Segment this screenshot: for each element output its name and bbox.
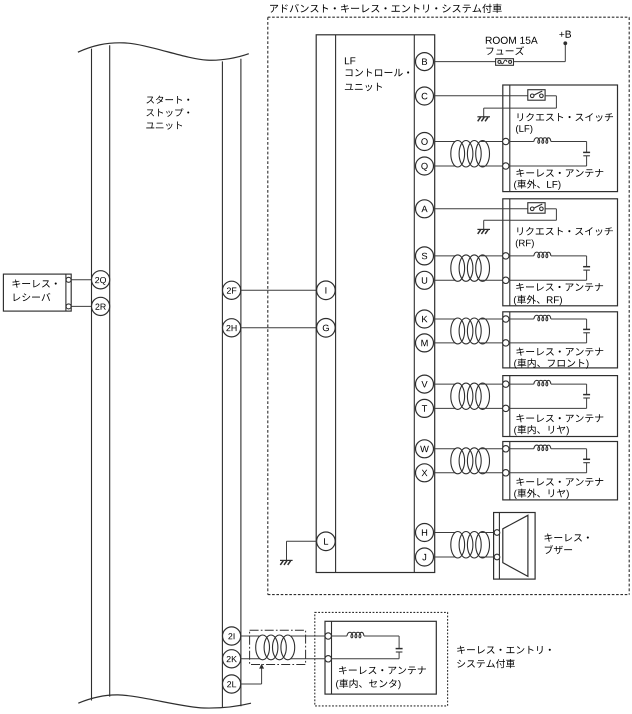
connector 2L	[223, 675, 241, 693]
buzzer pin upper	[494, 530, 500, 536]
connector W	[416, 440, 434, 458]
antenna connector pin upper	[503, 138, 509, 144]
wire	[509, 383, 534, 385]
wire A to request switch RF	[433, 208, 528, 210]
dotted border: keyless entry system	[315, 612, 448, 706]
antenna connector pin lower	[503, 470, 509, 476]
antenna connector pin lower	[503, 340, 509, 346]
connector T	[416, 399, 434, 417]
connector B	[416, 53, 434, 71]
keyless antenna (interior front) box	[503, 312, 618, 368]
request switch LF	[528, 90, 545, 101]
wire	[586, 463, 588, 473]
wire switch RF to ground	[545, 208, 556, 210]
wire	[509, 448, 534, 450]
label keyless entry system	[457, 646, 551, 654]
antenna coil	[534, 315, 551, 321]
connector A	[416, 200, 434, 218]
twisted pair W-X	[433, 448, 455, 450]
twisted pair S-U	[433, 255, 455, 257]
antenna connector pin lower	[325, 656, 331, 662]
label keyless antenna LF	[516, 169, 603, 177]
label keyless antenna front	[516, 348, 603, 356]
label keyless receiver	[12, 280, 56, 288]
wire L to ground	[287, 540, 317, 542]
antenna connector pin upper	[325, 633, 331, 639]
connector Q	[416, 157, 434, 175]
wire 2L to shield	[241, 683, 262, 685]
receiver pin upper	[66, 277, 71, 282]
wire	[586, 270, 588, 280]
ground	[477, 228, 490, 230]
wire 2F to I	[241, 289, 316, 291]
connector I	[317, 281, 336, 300]
shield arrow	[259, 664, 264, 669]
wire	[586, 156, 588, 166]
wire	[509, 255, 534, 257]
connector 2K	[223, 650, 241, 668]
antenna coil	[534, 445, 551, 451]
wire	[551, 383, 587, 385]
start-stop unit body	[78, 43, 249, 60]
antenna coil	[347, 632, 364, 638]
keyless receiver box	[3, 274, 71, 311]
twisted pair V-T	[433, 383, 455, 385]
keyless antenna (center) box	[325, 621, 436, 694]
label ROOM 15A fuse	[486, 37, 538, 44]
wire receiver to 2R	[71, 305, 92, 307]
antenna connector pin upper	[503, 381, 509, 387]
label keyless antenna interior rear	[516, 414, 603, 422]
connector 2Q	[92, 271, 110, 289]
label +B	[559, 31, 571, 38]
connector 2R	[92, 297, 110, 315]
connector S	[416, 247, 434, 265]
wire	[332, 635, 347, 637]
antenna coil	[534, 138, 551, 144]
request switch (RF) / keyless antenna (RF) box	[503, 199, 618, 306]
label request switch LF	[518, 113, 613, 122]
connector C	[416, 87, 434, 105]
dashed border: advanced keyless entry system	[268, 16, 629, 18]
twisted pair O-Q	[433, 141, 455, 143]
label keyless antenna RF	[516, 283, 603, 291]
connector O	[416, 133, 434, 151]
wire	[586, 398, 588, 408]
capacitor	[583, 328, 590, 330]
keyless buzzer box	[494, 513, 535, 580]
wire C to request switch LF	[433, 95, 528, 97]
capacitor	[583, 151, 590, 153]
connector G	[317, 319, 336, 338]
antenna connector pin lower	[503, 405, 509, 411]
wire B to fuse	[433, 61, 495, 63]
capacitor	[396, 648, 403, 650]
connector U	[416, 271, 434, 289]
label keyless buzzer	[545, 534, 589, 542]
label request switch RF	[517, 227, 612, 236]
antenna coil	[534, 380, 551, 386]
ground	[477, 116, 490, 118]
antenna connector pin lower	[503, 277, 509, 283]
shield dash-dot box	[250, 630, 306, 664]
request switch (LF) / keyless antenna (LF) box	[503, 85, 618, 192]
antenna connector pin upper	[503, 316, 509, 322]
connector K	[416, 310, 434, 328]
antenna connector pin upper	[503, 446, 509, 452]
connector V	[416, 375, 434, 393]
wire	[364, 635, 399, 637]
connector L	[317, 532, 336, 551]
twisted pair 2I-2K	[241, 635, 261, 637]
label advanced keyless entry system	[270, 4, 502, 13]
label LF control unit	[345, 57, 355, 64]
label start-stop unit	[146, 96, 189, 104]
connector 2F	[223, 281, 241, 299]
connector M	[416, 334, 434, 352]
wire	[509, 141, 534, 143]
capacitor	[583, 266, 590, 268]
capacitor	[583, 458, 590, 460]
LF control unit body	[316, 35, 435, 573]
node +B terminal	[563, 41, 567, 45]
wire	[398, 652, 400, 659]
wire	[551, 448, 587, 450]
label keyless antenna center	[339, 666, 426, 674]
buzzer pin lower	[494, 554, 500, 560]
connector H	[416, 524, 434, 542]
twisted pair H-J	[433, 532, 455, 534]
antenna connector pin upper	[503, 253, 509, 259]
twisted pair K-M	[433, 318, 455, 320]
connector 2I	[223, 627, 241, 645]
wire	[551, 141, 587, 143]
antenna coil	[534, 252, 551, 258]
wire	[509, 318, 534, 320]
wire	[551, 318, 587, 320]
connector X	[416, 464, 434, 482]
connector J	[416, 548, 434, 566]
label keyless antenna exterior rear	[516, 478, 603, 486]
keyless antenna (exterior rear) box	[503, 442, 618, 500]
capacitor	[583, 394, 590, 396]
connector 2H	[223, 319, 241, 337]
antenna connector pin lower	[503, 163, 509, 169]
wire receiver to 2Q	[71, 279, 92, 281]
buzzer horn	[503, 515, 528, 576]
ground	[280, 559, 293, 561]
wire switch LF to ground	[545, 95, 556, 97]
request switch RF	[528, 203, 545, 214]
wire fuse to +B	[514, 61, 566, 63]
receiver pin lower	[66, 304, 71, 309]
wire	[586, 333, 588, 343]
wire 2H to G	[241, 327, 316, 329]
keyless antenna (interior rear) box	[503, 376, 618, 437]
wire	[551, 255, 587, 257]
fuse ROOM 15A	[496, 59, 514, 66]
